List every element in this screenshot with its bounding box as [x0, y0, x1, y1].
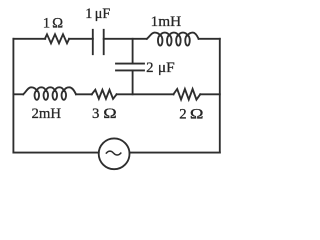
svg-text:2: 2 [179, 106, 186, 122]
svg-text:1mH: 1mH [151, 14, 182, 30]
svg-text:1: 1 [85, 6, 92, 22]
svg-text:μF: μF [95, 6, 111, 22]
svg-text:2mH: 2mH [32, 106, 62, 122]
svg-text:Ω: Ω [190, 106, 204, 122]
svg-text:Ω: Ω [103, 106, 116, 122]
svg-text:3: 3 [92, 106, 99, 122]
svg-text:1: 1 [43, 15, 50, 31]
svg-text:Ω: Ω [52, 15, 63, 31]
svg-text:μF: μF [158, 60, 175, 76]
svg-text:2: 2 [146, 60, 153, 76]
